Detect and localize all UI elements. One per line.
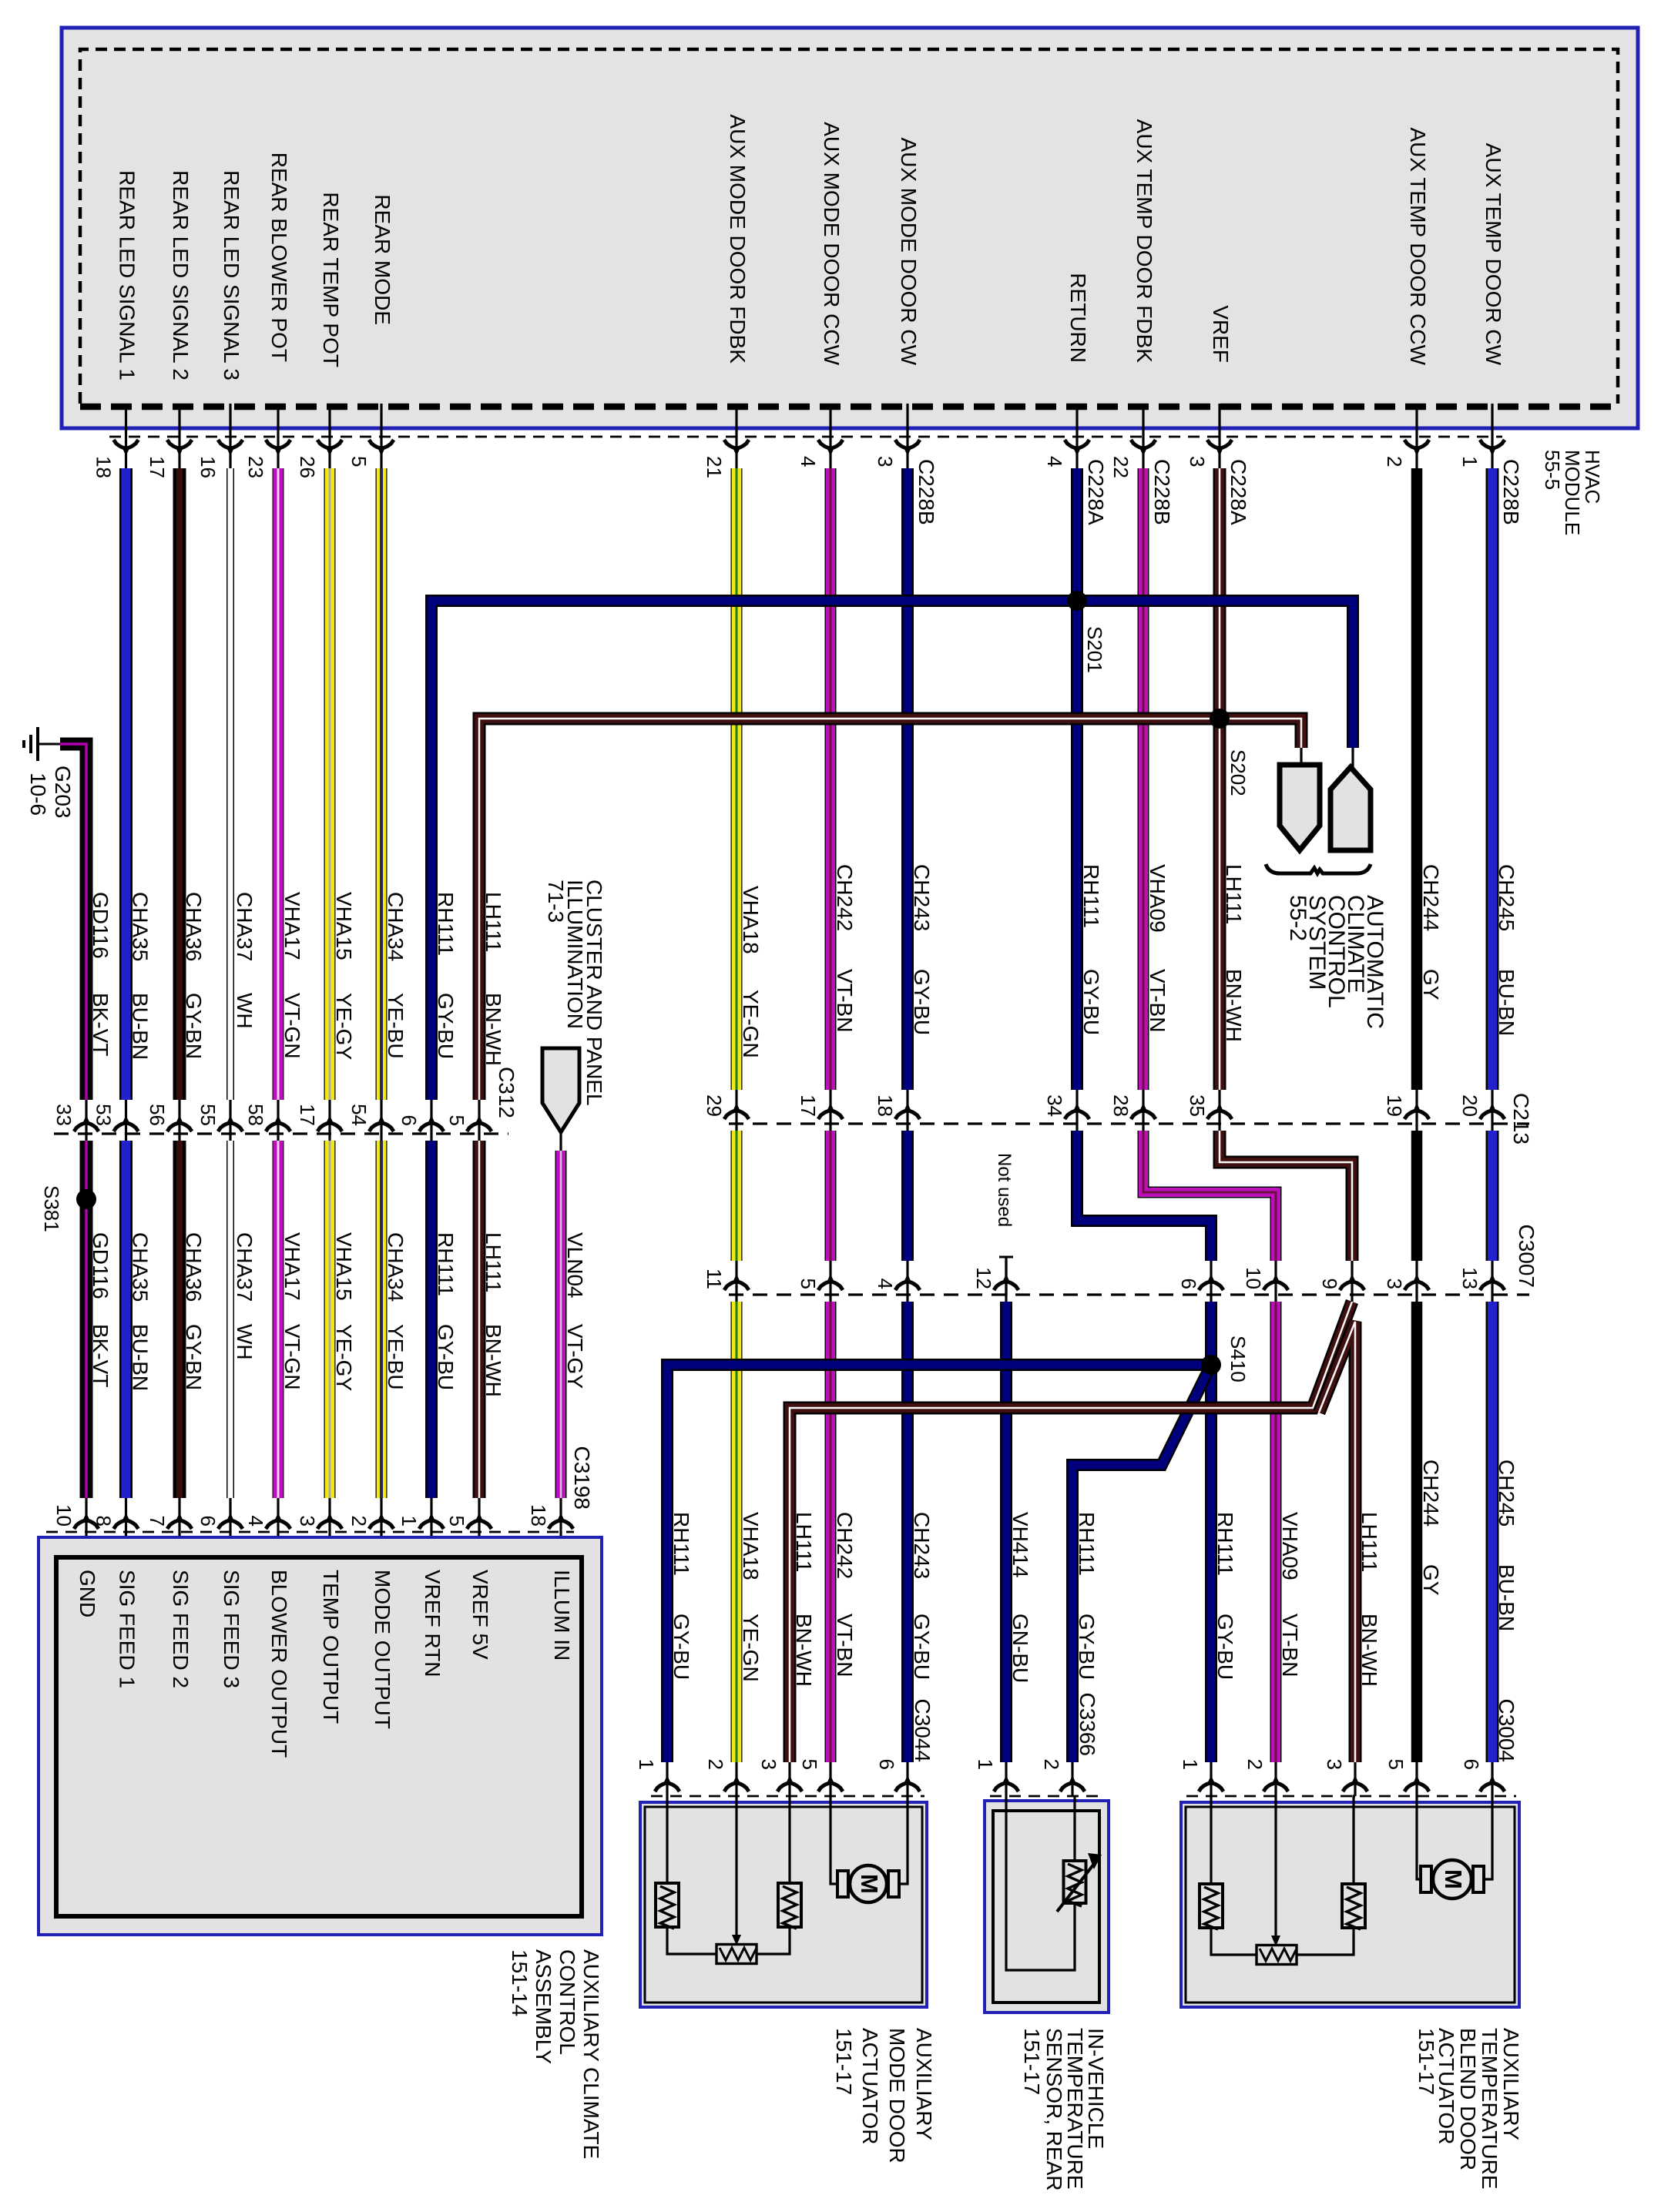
- svg-text:WH: WH: [233, 993, 257, 1029]
- C213 pin 17 connector arrow: [818, 1111, 843, 1119]
- svg-text:REAR TEMP POT: REAR TEMP POT: [319, 192, 343, 367]
- motor M in blend actuator: [1421, 1866, 1431, 1892]
- svg-text:BN-WH: BN-WH: [482, 1324, 505, 1397]
- wire CHA34 YE-BU upper segment: [376, 468, 388, 1100]
- module pin 23 stub wire: [277, 404, 279, 471]
- svg-text:AUX TEMP DOOR CCW: AUX TEMP DOOR CCW: [1406, 127, 1430, 365]
- svg-text:CH242: CH242: [833, 864, 857, 931]
- wire RH111 GY-BU horizontal run to S201 and automatic climate control: [431, 601, 1353, 1100]
- leader from RH111 to off-page symbol: [1351, 748, 1354, 767]
- module pin 17 connector arrow: [167, 440, 192, 448]
- svg-text:BU-BN: BU-BN: [129, 993, 153, 1060]
- module pin 26 stub wire: [328, 404, 331, 471]
- svg-text:C312: C312: [495, 1067, 518, 1118]
- motor M in mode actuator: [837, 1871, 848, 1897]
- svg-text:Not used: Not used: [994, 1153, 1015, 1227]
- blend door actuator connector row C3004: [1186, 1795, 1516, 1798]
- wire VHA18 YE-GN lower segment: [731, 1302, 743, 1762]
- svg-text:1: 1: [1179, 1759, 1202, 1770]
- module pin 2 stub wire: [1415, 404, 1418, 471]
- svg-text:GY-BU: GY-BU: [1213, 1614, 1237, 1680]
- svg-text:GY-BU: GY-BU: [910, 969, 934, 1035]
- svg-text:GY-BN: GY-BN: [182, 993, 206, 1059]
- wire VHA18 YE-GN middle segment: [731, 1131, 743, 1261]
- assembly connector pin 3 arrow: [317, 1520, 342, 1529]
- resistor in blend actuator (pin 3 side): [1342, 1884, 1365, 1928]
- svg-text:20: 20: [1458, 1094, 1481, 1117]
- C312 pin 6 connector arrow: [419, 1123, 444, 1131]
- C3007 pin 6 connector arrow: [1199, 1282, 1223, 1290]
- actuator/sensor pin 3 connector arrow: [1343, 1783, 1367, 1791]
- svg-text:BLOWER OUTPUT: BLOWER OUTPUT: [267, 1570, 291, 1758]
- svg-text:151-14: 151-14: [508, 1949, 532, 2016]
- svg-text:BK-VT: BK-VT: [89, 993, 112, 1056]
- svg-text:4: 4: [797, 456, 820, 467]
- svg-text:VT-GN: VT-GN: [280, 993, 304, 1059]
- svg-text:YE-GN: YE-GN: [739, 1614, 763, 1682]
- module pin 1 stub wire: [1491, 404, 1493, 471]
- wire CH243 GY-BU middle segment: [901, 1131, 914, 1261]
- svg-text:VREF 5V: VREF 5V: [468, 1570, 492, 1660]
- svg-text:MODE OUTPUT: MODE OUTPUT: [371, 1570, 394, 1729]
- svg-text:VHA18: VHA18: [739, 886, 763, 954]
- svg-text:GND: GND: [75, 1570, 99, 1617]
- svg-text:26: 26: [296, 456, 319, 478]
- wire LH111 BN-WH branch to blend door actuator: [1319, 1322, 1355, 1762]
- wire LH111 BN-WH jog to C3007 pin 9: [1220, 1131, 1352, 1261]
- auxiliary climate control assembly box: [39, 1537, 602, 1935]
- svg-text:BN-WH: BN-WH: [1222, 969, 1246, 1042]
- svg-text:ACTUATOR: ACTUATOR: [858, 2028, 882, 2144]
- svg-text:RH111: RH111: [434, 1232, 458, 1296]
- thermistor in temp sensor: [1064, 1861, 1086, 1903]
- resistor in mode actuator (pin 3 side): [778, 1883, 801, 1927]
- ground symbol G203: [36, 727, 39, 761]
- wire RH111 GY-BU return segment from module: [1071, 468, 1083, 601]
- resistor in mode actuator (pin 1 side): [656, 1883, 679, 1927]
- connector row C3007: [729, 1293, 1529, 1295]
- actuator/sensor pin 6 connector arrow: [1480, 1783, 1505, 1791]
- svg-text:REAR LED SIGNAL 1: REAR LED SIGNAL 1: [116, 170, 139, 380]
- svg-text:VHA18: VHA18: [739, 1512, 763, 1580]
- splice S381: [76, 1189, 96, 1209]
- svg-text:C228A: C228A: [1226, 459, 1250, 525]
- wire GD116 BK-VT from ground G203: [60, 744, 86, 1100]
- wire CH245 BU-BN upper segment: [1486, 468, 1499, 1090]
- svg-text:9: 9: [1318, 1279, 1341, 1289]
- svg-text:VT-BN: VT-BN: [833, 969, 857, 1032]
- wire CH242 VT-BN middle segment: [825, 1131, 837, 1261]
- splice S201: [1067, 591, 1087, 611]
- svg-text:S201: S201: [1083, 626, 1106, 673]
- svg-text:S202: S202: [1226, 749, 1250, 796]
- wire VHA15 YE-GY upper segment: [324, 468, 336, 1100]
- wire CH244 GY middle segment: [1411, 1131, 1423, 1261]
- svg-text:5: 5: [445, 1516, 468, 1527]
- svg-text:VREF: VREF: [1209, 305, 1233, 363]
- C3007 pin 9 connector arrow: [1340, 1282, 1364, 1290]
- wire CHA35 BU-BN upper segment: [119, 468, 133, 1100]
- wire CHA34 YE-BU lower segment: [376, 1141, 388, 1498]
- svg-text:17: 17: [146, 456, 169, 478]
- svg-text:LH111: LH111: [1222, 864, 1246, 924]
- svg-text:BLEND DOOR: BLEND DOOR: [1456, 2028, 1480, 2170]
- module pin 22 connector arrow: [1131, 440, 1156, 448]
- wire VHA09 VT-BN to blend door actuator: [1270, 1302, 1282, 1762]
- svg-text:VHA09: VHA09: [1278, 1512, 1302, 1580]
- svg-text:GY: GY: [1419, 969, 1443, 1000]
- svg-text:53: 53: [92, 1104, 116, 1126]
- svg-text:TEMPERATURE: TEMPERATURE: [1478, 2028, 1502, 2190]
- svg-text:5: 5: [445, 1115, 468, 1126]
- actuator/sensor pin 5 connector arrow: [818, 1783, 843, 1791]
- svg-text:YE-GN: YE-GN: [739, 990, 763, 1058]
- wire VHA09 VT-BN jog to C3007 pin 10: [1143, 1131, 1276, 1261]
- svg-text:2: 2: [704, 1759, 727, 1770]
- svg-text:35: 35: [1186, 1094, 1209, 1117]
- svg-text:SIG FEED 2: SIG FEED 2: [169, 1570, 193, 1688]
- module pin 18 stub wire: [125, 404, 127, 471]
- svg-text:BU-BN: BU-BN: [129, 1324, 153, 1391]
- svg-text:VHA15: VHA15: [332, 892, 356, 960]
- svg-text:3: 3: [757, 1759, 780, 1770]
- svg-text:2: 2: [1243, 1759, 1267, 1770]
- C3007 pin 10 connector arrow: [1263, 1282, 1288, 1290]
- wire CH242 VT-BN upper segment: [825, 468, 837, 1090]
- svg-text:VLN04: VLN04: [563, 1232, 587, 1299]
- svg-text:CHA36: CHA36: [182, 1232, 206, 1302]
- svg-text:GD116: GD116: [89, 1232, 112, 1299]
- svg-text:SENSOR, REAR: SENSOR, REAR: [1042, 2028, 1066, 2191]
- svg-text:CHA35: CHA35: [129, 892, 153, 961]
- assembly connector pin 10 arrow: [74, 1520, 99, 1529]
- svg-text:22: 22: [1109, 456, 1132, 478]
- C312 pin 55 connector arrow: [218, 1123, 243, 1131]
- svg-text:5: 5: [797, 1279, 820, 1289]
- svg-text:17: 17: [296, 1104, 319, 1126]
- svg-text:17: 17: [797, 1094, 820, 1117]
- svg-text:RH111: RH111: [1213, 1512, 1237, 1576]
- wire LH111 BN-WH lower segment: [473, 1141, 486, 1498]
- actuator/sensor pin 3 connector arrow: [777, 1783, 802, 1791]
- module pin 3 stub wire: [1218, 404, 1220, 471]
- svg-text:1: 1: [1458, 456, 1481, 467]
- actuator/sensor pin 1 connector arrow: [994, 1783, 1018, 1791]
- svg-text:2: 2: [1383, 456, 1406, 467]
- svg-text:1: 1: [974, 1759, 997, 1770]
- svg-text:M: M: [856, 1874, 883, 1894]
- svg-text:AUXILIARY: AUXILIARY: [912, 2028, 936, 2140]
- wire RH111 GY-BU to blend door actuator: [1205, 1302, 1217, 1762]
- svg-text:6: 6: [398, 1115, 421, 1126]
- svg-text:AUX MODE DOOR CCW: AUX MODE DOOR CCW: [820, 122, 844, 365]
- svg-text:GD116: GD116: [89, 892, 112, 959]
- svg-text:GY: GY: [1419, 1564, 1443, 1596]
- actuator/sensor pin 2 connector arrow: [1263, 1783, 1288, 1791]
- wire CHA37 WH upper segment: [226, 468, 234, 1100]
- svg-text:AUX MODE DOOR FDBK: AUX MODE DOOR FDBK: [726, 114, 750, 364]
- wire RH111 GY-BU branch to mode door actuator: [667, 1365, 1211, 1762]
- svg-text:REAR BLOWER POT: REAR BLOWER POT: [267, 152, 291, 362]
- svg-text:4: 4: [874, 1279, 897, 1289]
- svg-text:ILLUM IN: ILLUM IN: [550, 1570, 574, 1661]
- svg-text:REAR MODE: REAR MODE: [371, 194, 394, 325]
- connector row C213: [729, 1122, 1529, 1124]
- svg-text:10: 10: [52, 1504, 75, 1527]
- svg-text:71-3: 71-3: [544, 880, 568, 923]
- C3007 pin 3 connector arrow: [1404, 1282, 1429, 1290]
- assembly connector pin 1 arrow: [419, 1520, 444, 1529]
- wire CH244 GY lower segment: [1411, 1302, 1423, 1762]
- svg-text:C3044: C3044: [911, 1698, 935, 1762]
- svg-text:CH243: CH243: [910, 864, 934, 931]
- svg-text:AUX TEMP DOOR CW: AUX TEMP DOOR CW: [1481, 143, 1505, 366]
- wire RH111 GY-BU jog to C3007 pin 6: [1077, 1131, 1211, 1261]
- not used stub above C3007 pin 12: [1005, 1257, 1007, 1295]
- svg-text:1: 1: [398, 1516, 421, 1527]
- svg-text:5: 5: [798, 1759, 821, 1770]
- temp sensor connector row C3366: [990, 1795, 1106, 1798]
- auxiliary mode door actuator box: [640, 1802, 927, 2007]
- module pin 21 connector arrow: [724, 440, 749, 448]
- module pin 16 connector arrow: [218, 440, 243, 448]
- svg-text:C228B: C228B: [1150, 459, 1174, 525]
- svg-text:CONTROL: CONTROL: [555, 1949, 579, 2055]
- C213 pin 28 connector arrow: [1131, 1111, 1156, 1119]
- svg-text:29: 29: [703, 1094, 726, 1117]
- svg-text:4: 4: [244, 1516, 267, 1527]
- svg-text:18: 18: [527, 1504, 550, 1527]
- brace under off-page symbols: [1266, 864, 1371, 873]
- svg-text:AUX MODE DOOR CW: AUX MODE DOOR CW: [897, 137, 921, 365]
- C312 pin 17 connector arrow: [317, 1123, 342, 1131]
- svg-text:18: 18: [92, 456, 116, 478]
- svg-text:4: 4: [1043, 456, 1066, 467]
- actuator/sensor pin 5 connector arrow: [1404, 1783, 1429, 1791]
- svg-text:54: 54: [347, 1104, 371, 1126]
- svg-text:151-17: 151-17: [832, 2028, 856, 2095]
- resistor in blend actuator (pin 1 side): [1200, 1884, 1223, 1928]
- C312 pin 56 connector arrow: [167, 1123, 192, 1131]
- assembly connector pin 7 arrow: [167, 1520, 192, 1529]
- svg-text:3: 3: [296, 1516, 319, 1527]
- wire CHA36 GY-BN upper segment: [173, 468, 186, 1100]
- C312 pin 5 connector arrow: [467, 1123, 492, 1131]
- mode actuator internal wiring: [667, 1796, 790, 1954]
- wire VH414 GN-BU to in-vehicle temp sensor: [1000, 1302, 1012, 1762]
- svg-text:M: M: [1440, 1869, 1467, 1889]
- C312 pin 53 connector arrow: [114, 1123, 139, 1131]
- svg-text:3: 3: [1186, 456, 1209, 467]
- actuator/sensor pin 6 connector arrow: [895, 1783, 920, 1791]
- assembly connector pin 8 arrow: [114, 1520, 139, 1529]
- svg-text:VT-BN: VT-BN: [833, 1614, 857, 1677]
- svg-text:5: 5: [1384, 1759, 1408, 1770]
- potentiometer in blend actuator: [1257, 1946, 1297, 1965]
- blend actuator internal wiring: [1211, 1796, 1355, 1955]
- splice S410: [1201, 1355, 1221, 1375]
- wire RH111 GY-BU lower segment: [425, 1141, 438, 1498]
- in-vehicle temperature sensor box: [985, 1801, 1109, 2013]
- svg-text:13: 13: [1458, 1267, 1481, 1289]
- assembly connector pin 2 arrow: [369, 1520, 394, 1529]
- svg-text:58: 58: [244, 1104, 267, 1126]
- potentiometer in mode actuator: [716, 1945, 757, 1964]
- assembly connector pin 4 arrow: [266, 1520, 290, 1529]
- svg-text:16: 16: [196, 456, 220, 478]
- module pin 23 connector arrow: [266, 440, 290, 448]
- svg-text:GY-BU: GY-BU: [1079, 969, 1103, 1035]
- svg-text:18: 18: [874, 1094, 897, 1117]
- svg-text:6: 6: [196, 1516, 220, 1527]
- svg-text:55: 55: [196, 1104, 220, 1126]
- wire CHA36 GY-BN lower segment: [173, 1141, 186, 1498]
- svg-text:GN-BU: GN-BU: [1008, 1614, 1032, 1683]
- svg-text:5: 5: [347, 456, 371, 467]
- svg-text:VT-GN: VT-GN: [280, 1324, 304, 1390]
- svg-text:CH244: CH244: [1419, 864, 1443, 931]
- svg-text:7: 7: [146, 1516, 169, 1527]
- svg-text:GY-BU: GY-BU: [910, 1614, 934, 1680]
- actuator/sensor pin 1 connector arrow: [655, 1783, 679, 1791]
- actuator/sensor pin 1 connector arrow: [1199, 1783, 1223, 1791]
- wire VHA17 VT-GN upper segment: [273, 468, 284, 1100]
- svg-text:BK-VT: BK-VT: [89, 1324, 112, 1387]
- svg-text:YE-GY: YE-GY: [332, 993, 356, 1060]
- splice S202: [1210, 709, 1230, 729]
- wire CH245 BU-BN middle segment: [1486, 1131, 1499, 1261]
- svg-text:VHA17: VHA17: [280, 1232, 304, 1301]
- C312 pin 58 connector arrow: [266, 1123, 290, 1131]
- svg-text:11: 11: [703, 1269, 726, 1289]
- svg-text:RH111: RH111: [1079, 864, 1103, 928]
- HVAC module inner dashed border: [80, 49, 1618, 404]
- module pin 16 stub wire: [229, 404, 231, 471]
- wire LH111 BN-WH vref segment from module: [1213, 468, 1226, 719]
- svg-text:10: 10: [1242, 1267, 1265, 1289]
- svg-text:C213: C213: [1509, 1093, 1533, 1145]
- module pin 21 stub wire: [735, 404, 737, 471]
- svg-text:55-2: 55-2: [1285, 895, 1310, 941]
- svg-text:CH242: CH242: [833, 1512, 857, 1579]
- leader from LH111 to off-page symbol: [1300, 748, 1302, 765]
- svg-text:MODE DOOR: MODE DOOR: [885, 2028, 909, 2163]
- module pin 4 stub wire: [1075, 404, 1078, 471]
- module pin 4 connector arrow: [1065, 440, 1089, 448]
- svg-text:56: 56: [146, 1104, 169, 1126]
- C3007 pin 13 connector arrow: [1480, 1282, 1505, 1290]
- svg-text:151-17: 151-17: [1020, 2028, 1044, 2095]
- svg-text:CH245: CH245: [1495, 864, 1518, 931]
- wire CHA35 BU-BN lower segment: [119, 1141, 133, 1498]
- svg-text:3: 3: [874, 456, 897, 467]
- svg-text:AUXILIARY CLIMATE: AUXILIARY CLIMATE: [579, 1949, 603, 2159]
- svg-text:33: 33: [52, 1104, 75, 1126]
- module pin 5 stub wire: [380, 404, 382, 471]
- sensor internal wiring: [1006, 1796, 1075, 1970]
- actuator/sensor pin 2 connector arrow: [1060, 1783, 1085, 1791]
- svg-text:SIG FEED 3: SIG FEED 3: [220, 1570, 243, 1688]
- module pin 5 connector arrow: [369, 440, 394, 448]
- auxiliary temperature blend door actuator box: [1181, 1802, 1519, 2007]
- svg-text:VT-GY: VT-GY: [563, 1324, 587, 1389]
- svg-text:6: 6: [875, 1759, 898, 1770]
- C312 pin 54 connector arrow: [369, 1123, 394, 1131]
- wire VHA17 VT-GN lower segment: [273, 1141, 284, 1498]
- svg-text:AUXILIARY: AUXILIARY: [1499, 2028, 1523, 2140]
- assembly connector pin 18 arrow: [549, 1520, 573, 1529]
- svg-text:19: 19: [1383, 1094, 1406, 1117]
- svg-text:TEMP OUTPUT: TEMP OUTPUT: [319, 1570, 343, 1724]
- svg-text:GY-BU: GY-BU: [434, 1324, 458, 1390]
- svg-text:C228B: C228B: [1499, 459, 1523, 525]
- module pin 3 connector arrow: [895, 440, 920, 448]
- wire VLN04 VT-GY: [559, 1132, 562, 1151]
- wire CH243 GY-BU upper segment: [901, 468, 914, 1090]
- connector row under module: [109, 436, 1502, 438]
- svg-text:151-17: 151-17: [1414, 2028, 1438, 2095]
- svg-text:VH414: VH414: [1008, 1512, 1032, 1578]
- svg-text:C3004: C3004: [1495, 1698, 1518, 1762]
- module pin 2 connector arrow: [1404, 440, 1429, 448]
- wire CH243 GY-BU lower segment: [901, 1302, 914, 1762]
- wire CH242 VT-BN lower segment: [825, 1302, 837, 1762]
- wire VHA15 YE-GY lower segment: [324, 1141, 336, 1498]
- svg-text:VHA15: VHA15: [332, 1232, 356, 1301]
- svg-text:GY-BN: GY-BN: [182, 1324, 206, 1390]
- C213 pin 29 connector arrow: [724, 1111, 749, 1119]
- assembly connector pin 6 arrow: [218, 1520, 243, 1529]
- svg-text:RETURN: RETURN: [1066, 273, 1090, 363]
- svg-text:10-6: 10-6: [26, 773, 50, 816]
- svg-text:CH244: CH244: [1419, 1460, 1443, 1527]
- assembly connector row C3198: [46, 1531, 574, 1533]
- svg-text:8: 8: [92, 1516, 116, 1527]
- C3007 pin 5 connector arrow: [818, 1282, 843, 1290]
- wire RH111 GY-BU branch to in-vehicle temp sensor: [1072, 1365, 1211, 1762]
- module pin 26 connector arrow: [317, 440, 342, 448]
- svg-text:WH: WH: [233, 1324, 257, 1360]
- module pin 18 connector arrow: [114, 440, 139, 448]
- svg-text:6: 6: [1460, 1759, 1483, 1770]
- assembly connector pin 5 arrow: [467, 1520, 492, 1529]
- C213 pin 35 connector arrow: [1207, 1111, 1232, 1119]
- wire LH111 BN-WH branch to mode door actuator: [790, 1302, 1352, 1762]
- svg-text:CHA37: CHA37: [233, 892, 257, 961]
- wire LH111 BN-WH horizontal run to S202 and automatic climate control: [479, 719, 1301, 1100]
- svg-text:BU-BN: BU-BN: [1495, 1564, 1518, 1631]
- svg-text:CHA34: CHA34: [384, 892, 408, 961]
- svg-text:BU-BN: BU-BN: [1495, 969, 1518, 1036]
- wire GD116 BK-VT lower segment: [80, 1141, 93, 1498]
- svg-text:YE-BU: YE-BU: [384, 993, 408, 1059]
- wire CH245 BU-BN lower segment: [1486, 1302, 1499, 1762]
- mode door actuator connector row C3044: [651, 1795, 924, 1798]
- svg-text:C228B: C228B: [914, 459, 938, 525]
- svg-text:C3007: C3007: [1515, 1224, 1539, 1288]
- svg-text:S410: S410: [1226, 1336, 1250, 1382]
- svg-text:C228A: C228A: [1084, 459, 1108, 525]
- svg-text:2: 2: [1040, 1759, 1063, 1770]
- wire VHA18 YE-GN upper segment: [731, 468, 743, 1090]
- svg-text:REAR LED SIGNAL 2: REAR LED SIGNAL 2: [169, 170, 193, 380]
- thermistor arrow: [1057, 1864, 1094, 1912]
- C3007 pin 12 connector arrow: [994, 1282, 1018, 1290]
- C312 pin 33 connector arrow: [74, 1123, 99, 1131]
- off-page symbol left (to automatic climate control system): [1280, 765, 1320, 850]
- svg-text:YE-GY: YE-GY: [332, 1324, 356, 1391]
- actuator/sensor pin 2 connector arrow: [724, 1783, 749, 1791]
